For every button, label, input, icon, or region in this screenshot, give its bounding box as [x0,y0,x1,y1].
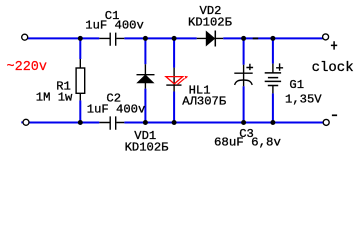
wire C3 branch [243,38,245,122]
terminal output plus [323,34,329,40]
LED HL1 [166,68,188,92]
svg-text:KD102Б: KD102Б [188,15,232,29]
svg-text:G1: G1 [289,78,304,92]
junction top C3 [241,36,246,41]
capacitor C2 [99,116,124,129]
svg-text:1uF 400v: 1uF 400v [85,19,144,33]
capacitor C1 [99,33,124,46]
svg-text:1,35V: 1,35V [285,92,322,106]
svg-text:68uF 6,8v: 68uF 6,8v [214,136,281,150]
junction bottom VD1 [143,120,148,125]
junction bottom G1 [270,120,275,125]
diode VD2 [197,31,224,47]
svg-text:1uF 400v: 1uF 400v [87,102,146,116]
terminal input bottom [23,119,29,125]
resistor R1 [76,59,85,100]
svg-text:~220v: ~220v [7,60,48,75]
svg-text:clock: clock [312,60,354,76]
label plus output [331,41,337,49]
junction bottom HL1 [172,120,177,125]
terminal output minus [323,119,329,125]
wire bottom rail [21,121,323,123]
junction top G1 [270,36,275,41]
junction top R1 [78,36,83,41]
diode VD1 [137,64,155,88]
svg-text:АЛ307Б: АЛ307Б [182,94,226,108]
junction bottom R1 [78,120,83,125]
junction top VD1 [143,36,148,41]
svg-text:KD102Б: KD102Б [125,140,169,154]
junction bottom C3 [241,120,246,125]
label minus output [332,114,337,116]
wire VD1 branch [144,38,146,122]
wire R1 branch [79,38,81,122]
junction top HL1 [172,36,177,41]
wire HL1 branch [173,38,175,122]
svg-text:1M 1w: 1M 1w [36,91,73,105]
battery G1 [265,63,283,93]
terminal input top [22,34,28,40]
capacitor C3 [234,64,253,87]
wire top rail [28,37,323,39]
wire black dash on top rail [253,37,259,39]
wire G1 branch [272,38,274,122]
